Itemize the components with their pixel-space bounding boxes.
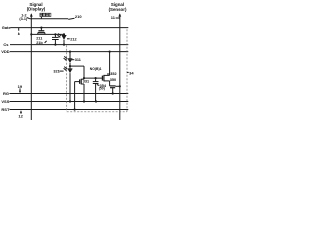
wire display signal line vertical — [30, 14, 32, 120]
box 34 dashed sensor boundary — [67, 28, 127, 112]
svg-text:Gate: Gate — [2, 25, 12, 30]
label 331 — [83, 80, 89, 84]
svg-text:(3-1): (3-1) — [19, 17, 28, 21]
svg-text:311: 311 — [75, 58, 81, 62]
label 34 — [127, 71, 129, 73]
svg-text:RST: RST — [1, 107, 10, 112]
label 21b — [36, 41, 43, 45]
arrow sensor signal line top — [118, 13, 121, 16]
capacitor Cs pixel — [54, 34, 56, 37]
diode 212 OLED — [63, 34, 65, 35]
svg-text:VDD: VDD — [1, 49, 10, 54]
label RG — [3, 91, 9, 96]
transistor 211 sampling TFT — [40, 28, 42, 31]
node B junction — [83, 77, 85, 79]
node photodiode-VSS junction — [69, 100, 71, 102]
node cap-top junction — [54, 33, 56, 35]
label 352 — [107, 73, 110, 75]
node oled-bottom junction — [63, 44, 65, 46]
node reset-source VSS junction — [83, 100, 85, 102]
wire leader 1-2 — [27, 18, 30, 19]
svg-text:350: 350 — [110, 78, 116, 82]
label Signal (Display) — [27, 2, 46, 12]
label 311 — [72, 59, 75, 61]
wire tick under 表示回路 — [40, 17, 42, 19]
svg-text:212: 212 — [70, 38, 76, 42]
transistor 331 reset TFT — [79, 79, 81, 83]
photodiode 311 — [69, 52, 71, 59]
arrow display signal line top — [30, 13, 33, 16]
label NO(B)1 — [90, 67, 102, 71]
svg-text:331: 331 — [83, 80, 89, 84]
label (50) — [99, 86, 105, 90]
label 211 — [36, 37, 42, 41]
wire leader 21b slash — [45, 41, 47, 43]
svg-text:19: 19 — [18, 84, 23, 89]
label 212 — [67, 38, 70, 40]
label 12 — [18, 114, 23, 119]
svg-text:12: 12 — [18, 114, 23, 119]
wire node B to amp gate — [84, 77, 102, 79]
wire node B vertical — [83, 66, 85, 79]
label 19 — [18, 84, 23, 89]
node cap354-VSS junction — [95, 100, 97, 102]
wire pixel row y34.4 — [31, 33, 64, 35]
node reset-gate RST junction — [74, 108, 76, 110]
wire leader 11 — [116, 17, 120, 19]
transistor 352 amplifier TFT — [101, 76, 103, 81]
arrows light 311 — [64, 56, 67, 58]
svg-text:11: 11 — [111, 15, 116, 20]
label 1-2 (3-1) — [19, 14, 28, 21]
tick below gate line — [18, 28, 20, 31]
svg-text:210: 210 — [75, 14, 82, 19]
node select-RG junction — [112, 92, 114, 94]
wire leader 210 — [68, 18, 74, 19]
node select-signal junction — [119, 85, 121, 87]
label 354 — [97, 85, 100, 86]
wire top reference line 210 — [30, 18, 68, 20]
photodiode 321 — [69, 66, 71, 69]
transistor select TFT (RG gated) — [110, 85, 116, 87]
svg-text:RG: RG — [3, 91, 9, 96]
wire RST bus line — [10, 109, 129, 111]
arrows light 212 — [58, 34, 61, 36]
node VDD-photodiode junction — [69, 51, 71, 53]
label 350 — [110, 78, 116, 82]
node cap354 junction — [95, 77, 97, 79]
wire sensor signal line vertical — [119, 14, 121, 120]
svg-text:34: 34 — [129, 70, 134, 75]
wire leader 12 arrow up — [20, 112, 22, 114]
label Gate — [2, 25, 12, 30]
svg-text:(50): (50) — [99, 86, 105, 90]
wire leader 19 arrow down — [19, 88, 21, 91]
svg-text:Cs: Cs — [3, 42, 9, 47]
arrows light 321 — [64, 67, 67, 69]
wire Cs bus line — [10, 44, 128, 46]
svg-text:21b: 21b — [36, 41, 43, 45]
label 210 — [75, 14, 82, 19]
svg-text:NO(B)1: NO(B)1 — [90, 67, 102, 71]
label Cs — [3, 42, 9, 47]
wire VSS bus line — [10, 101, 129, 103]
wire Gate bus line — [11, 27, 129, 29]
node oled-top junction — [63, 33, 65, 35]
label 321 — [53, 69, 59, 73]
wire RG bus line — [10, 93, 129, 95]
node photodiode middle — [69, 65, 71, 67]
label Signal (Sensor) — [109, 2, 127, 12]
label VDD — [1, 49, 10, 54]
node cap-bottom junction — [54, 44, 56, 46]
label 11 — [111, 15, 116, 20]
node gate-stem junction — [40, 27, 42, 29]
wire VDD bus line — [10, 51, 128, 53]
svg-text:(Sensor): (Sensor) — [109, 7, 127, 12]
svg-text:VSS: VSS — [1, 99, 9, 104]
svg-text:352: 352 — [110, 72, 116, 76]
label 表示回路 — [40, 13, 51, 16]
svg-text:321: 321 — [53, 69, 59, 73]
svg-text:(Display): (Display) — [27, 7, 46, 12]
wire node B horizontal — [70, 65, 84, 67]
node amp-drain VDD junction — [109, 51, 111, 53]
node signal-wire junction — [30, 33, 32, 35]
label VSS — [1, 99, 9, 104]
label RST — [1, 107, 10, 112]
capacitor 354 — [95, 78, 97, 82]
